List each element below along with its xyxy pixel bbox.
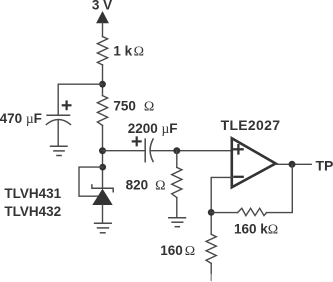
power arrow 3V [96, 11, 109, 23]
ground below 820 Ohm [169, 218, 186, 227]
svg-text:2200 µF: 2200 µF [128, 121, 178, 136]
svg-text:470 µF: 470 µF [0, 111, 42, 126]
shunt reference TLVH431 cathode bar [92, 185, 113, 192]
svg-text:TLVH432: TLVH432 [4, 204, 61, 219]
svg-text:TLVH431: TLVH431 [4, 186, 61, 201]
capacitor 2200uF left plate [144, 139, 146, 162]
part label TLVH431 TLVH432 [4, 186, 61, 219]
node ref junction dot [99, 164, 106, 171]
resistor 160 Ohm [206, 234, 216, 263]
op-amp TLE2027 triangle [232, 138, 276, 187]
shunt reference TLVH431 triangle [92, 189, 112, 205]
wire resistor 160k to node B [211, 212, 237, 214]
node A2 junction dot [99, 147, 106, 154]
wire feedback from output down and left [267, 164, 293, 212]
svg-text:160 kΩ: 160 kΩ [234, 222, 278, 238]
ground below 470uF [51, 146, 67, 155]
wire node A2 to capacitor 2200uF [103, 150, 145, 152]
wire op-amp minus input to feedback node B [211, 177, 232, 234]
op-amp plus input mark [234, 145, 242, 153]
wire TLVH431 anode to ground [102, 205, 104, 223]
node A junction dot [99, 81, 106, 88]
resistor 750 Ohm [97, 96, 107, 126]
wire op-amp output to TP [276, 163, 311, 165]
wire resistor 820 to ground [176, 198, 178, 218]
ground below TLVH431 [95, 223, 112, 233]
wire ref loop of TLVH431 [79, 167, 103, 196]
resistor 820 Ohm [172, 167, 182, 197]
svg-text:160Ω: 160Ω [160, 243, 195, 259]
node junction dot at 820 Ohm branch [173, 147, 180, 154]
capacitor 2200uF right curved plate [150, 139, 153, 162]
svg-text:820Ω: 820Ω [126, 177, 166, 193]
capacitor 470uF top plate [47, 114, 69, 116]
node B junction dot [208, 209, 215, 216]
wire node to resistor 820 [176, 151, 178, 168]
resistor 160 kOhm feedback [238, 208, 267, 215]
svg-text:3 V: 3 V [92, 0, 112, 13]
wire node A to capacitor 470uF [58, 84, 102, 115]
svg-text:TP: TP [316, 157, 333, 173]
plus sign of capacitor 2200uF [133, 138, 141, 146]
wire resistor 160 to bottom edge [210, 263, 212, 274]
wire R 1k to node A [102, 65, 104, 96]
op-amp minus input mark [234, 176, 242, 178]
wire from 3V arrow to R 1k [102, 23, 104, 37]
svg-text:TLE2027: TLE2027 [221, 117, 281, 133]
plus sign of capacitor 470uF [63, 102, 71, 110]
node TP junction dot [289, 161, 296, 168]
wire R750 through node A2 and ref node down to TLVH431 cathode [102, 125, 104, 188]
resistor 1 kOhm [97, 37, 107, 65]
capacitor 470uF bottom curved plate [46, 120, 70, 125]
wire capacitor 470uF to ground [57, 121, 59, 147]
wire capacitor 2200uF to op-amp plus input [150, 150, 231, 152]
svg-text:750Ω: 750Ω [113, 99, 154, 115]
svg-text:1 kΩ: 1 kΩ [113, 44, 144, 60]
